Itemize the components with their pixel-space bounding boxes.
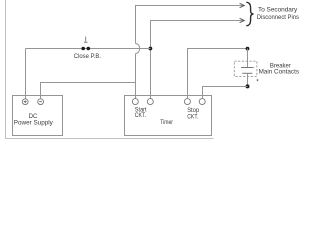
breaker contact plate bottom (242, 72, 252, 74)
bottom figure rule (5, 138, 214, 140)
svg-text:CKT.: CKT. (187, 113, 198, 120)
arrowhead wire 2 (240, 18, 245, 22)
svg-text:Close P.B.: Close P.B. (74, 53, 101, 60)
wire: from - terminal up and right to V1 (41, 83, 136, 99)
svg-text:Timer: Timer (160, 119, 173, 126)
breaker dashed enclosure (234, 61, 257, 76)
wire: top secondary disconnect wire 1 (136, 6, 244, 44)
wire: junction left and down to stop terminal 2 (203, 87, 248, 99)
wire: top secondary disconnect wire 2 (151, 21, 244, 49)
junction dot at V2 and Close P.B. wire (149, 47, 153, 51)
terminal + (22, 99, 28, 105)
svg-text:Main Contacts: Main Contacts (259, 69, 300, 76)
timer box (125, 96, 212, 136)
DC power supply box (13, 96, 63, 136)
junction dot below breaker (246, 84, 250, 88)
timer terminal stop 2 (199, 99, 205, 105)
pushbutton actuator stem (85, 37, 87, 42)
wire: from Close P.B. wire down to + terminal (25, 49, 27, 99)
wire: vertical V2 lower part (to timer start terminal 2) (150, 49, 152, 99)
wire: stop terminal 1 up to breaker top (188, 49, 248, 99)
svg-text:CKT.: CKT. (135, 112, 146, 119)
timer terminal start 1 (132, 99, 138, 105)
arrowhead wire 1 (240, 3, 245, 7)
svg-text:To Secondary: To Secondary (258, 6, 298, 13)
left figure rule (5, 0, 7, 139)
terminal - (38, 99, 44, 105)
breaker contact plate top (241, 67, 254, 69)
wire: vertical V1 lower part (to timer start terminal 1) (135, 54, 137, 99)
timer terminal start 2 (147, 99, 153, 105)
pushbutton Close P.B. contact dots (81, 47, 85, 51)
wire: breaker bottom to junction (247, 73, 249, 86)
junction dot at breaker top corner (246, 47, 250, 51)
svg-text:Power Supply: Power Supply (14, 120, 54, 127)
svg-text:Disconnect Pins: Disconnect Pins (257, 14, 300, 21)
wire: Close P.B. wire (26, 48, 151, 50)
wire: down into breaker (247, 49, 249, 68)
timer terminal stop 1 (184, 99, 190, 105)
brace (246, 2, 253, 26)
pushbutton actuator cap (84, 41, 88, 43)
hop of V1 over Close P.B. wire (136, 44, 140, 54)
